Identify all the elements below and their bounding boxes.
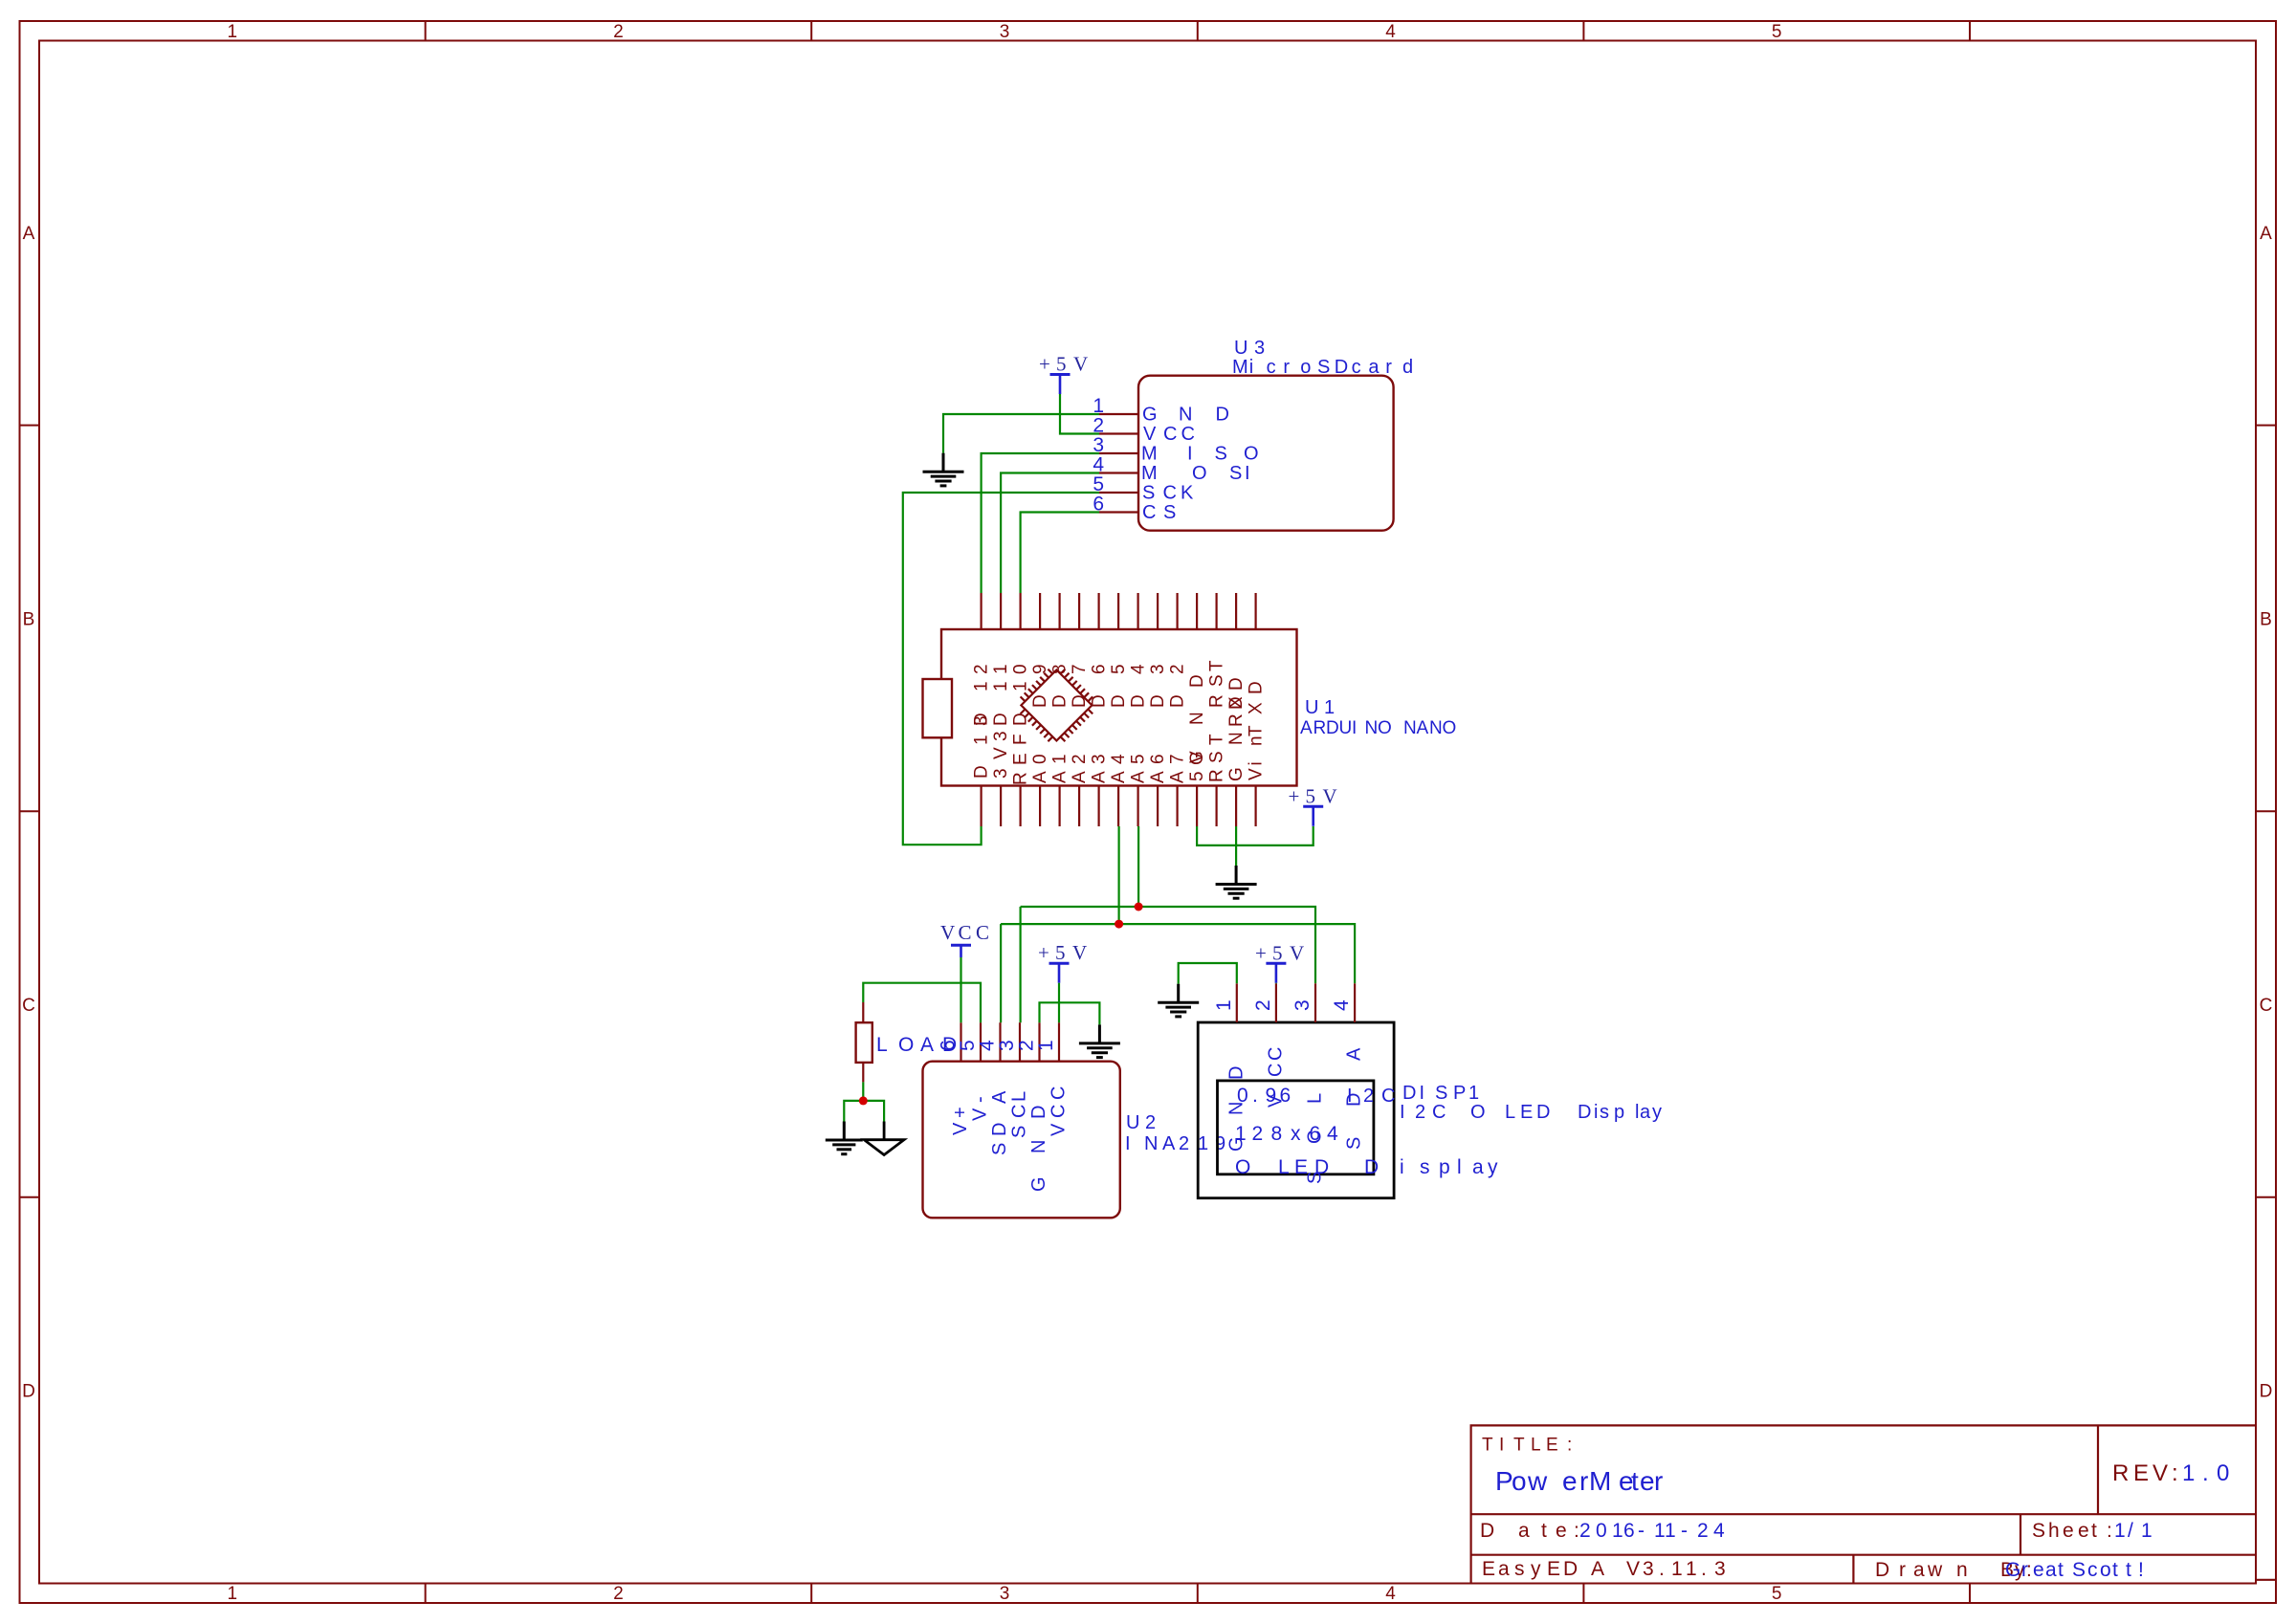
ground (923, 453, 964, 486)
svg-text:2: 2 (613, 22, 624, 42)
U2 INA219 box (923, 1062, 1120, 1218)
resistor LOAD (862, 1002, 864, 1022)
svg-text:1: 1 (1213, 999, 1235, 1011)
wire +5V to U2 VCC pin1 (1058, 983, 1060, 1023)
power VCC at U2 V+ (951, 945, 971, 957)
svg-text:2: 2 (1252, 999, 1274, 1011)
title block (1471, 1425, 2276, 1583)
power +5V (1266, 963, 1286, 983)
svg-text:1: 1 (228, 22, 238, 42)
svg-text:+5V: +5V (1255, 941, 1304, 964)
svg-text:TXD: TXD (1247, 681, 1267, 736)
ground (826, 1122, 863, 1154)
svg-text:+5V: +5V (1039, 353, 1088, 376)
SCL net line to DISP1 pin3 (1021, 907, 1315, 983)
svg-text:A: A (23, 224, 35, 244)
DISP1 pins 1-4 (1236, 983, 1238, 1022)
DISP1 OLED screen inner box (1218, 1081, 1374, 1174)
svg-text:1: 1 (228, 1584, 238, 1604)
svg-text:+5V: +5V (1289, 784, 1337, 807)
U3 pins 1-6 (1099, 413, 1138, 415)
svg-text:2: 2 (613, 1584, 624, 1604)
svg-text:B: B (2260, 609, 2272, 629)
svg-text:SCL: SCL (1009, 1091, 1030, 1138)
wire LOAD to U2 V- (863, 983, 981, 1023)
wire U3 GND to ground (943, 414, 1099, 453)
svg-text:VCC: VCC (1049, 1086, 1070, 1136)
power +5V (1303, 806, 1323, 826)
wire U1 GND pin down (1235, 826, 1237, 866)
svg-text:RST: RST (1207, 660, 1227, 708)
wire U1 A5 to SCL line (1137, 826, 1139, 907)
svg-text:REF: REF (1011, 734, 1031, 785)
svg-text:C: C (22, 996, 35, 1016)
svg-text:5: 5 (1772, 1584, 1782, 1604)
junction LOAD-grounds (859, 1096, 868, 1105)
ground (1158, 984, 1199, 1017)
svg-text:4: 4 (1385, 22, 1396, 42)
svg-text:A: A (2260, 224, 2272, 244)
SDA net line to DISP1 pin4 (1001, 924, 1355, 983)
svg-text:PowerMeter: PowerMeter (1495, 1466, 1663, 1496)
DISP1 OLED module box (1198, 1022, 1394, 1198)
power +5V (1049, 963, 1070, 982)
svg-text:DISP1: DISP1 (1402, 1083, 1479, 1104)
ground (1216, 866, 1257, 898)
U3 MicroSDcard box (1138, 376, 1394, 531)
wire U1 5V to +5V symbol (1197, 826, 1314, 845)
svg-text:3: 3 (1000, 1584, 1010, 1604)
svg-text:I2C OLED Display: I2C OLED Display (1400, 1102, 1662, 1123)
svg-text:RST: RST (1207, 734, 1227, 782)
svg-text:4: 4 (1331, 999, 1353, 1011)
svg-text:D: D (22, 1382, 35, 1402)
svg-text:VCC: VCC (940, 921, 989, 944)
svg-text:ARDUINO NANO: ARDUINO NANO (1300, 718, 1456, 738)
svg-text:+5V: +5V (1038, 941, 1087, 964)
wire U2 GND to ground (1040, 1002, 1100, 1024)
wire DISP1 GND to ground (1179, 963, 1237, 984)
svg-text:V-: V- (970, 1096, 991, 1121)
svg-text:SDA: SDA (989, 1090, 1010, 1155)
svg-text:3: 3 (1000, 22, 1010, 42)
svg-text:GND: GND (1028, 1106, 1049, 1192)
svg-text:1: 1 (1035, 1040, 1057, 1051)
power +5V (1050, 375, 1071, 395)
ground (1079, 1024, 1120, 1057)
wire U2 SDA riser (1000, 924, 1002, 1022)
U1 usb connector rectangle (923, 679, 953, 737)
svg-text:C: C (2260, 996, 2273, 1016)
U1 bottom pins (980, 786, 982, 827)
junction A5-SCL (1135, 903, 1143, 911)
svg-text:4: 4 (1385, 1584, 1396, 1604)
svg-text:GND: GND (1142, 405, 1229, 426)
junction A4-SDA (1115, 920, 1123, 929)
svg-text:3: 3 (1291, 999, 1314, 1011)
svg-text:D: D (2260, 1382, 2273, 1402)
wire U3 CS to U1 D10 (1021, 513, 1099, 594)
wire U3 MISO to U1 D12 (982, 453, 1099, 593)
svg-text:B: B (23, 609, 35, 629)
wire U1 A4 to SDA line (1117, 826, 1119, 924)
wire U2 SCL riser (1019, 907, 1021, 1022)
svg-text:5: 5 (1772, 22, 1782, 42)
U1 Arduino Nano box (941, 629, 1297, 786)
svg-text:1.0: 1.0 (2182, 1460, 2229, 1486)
wire U3 MOSI to U1 D11 (1001, 473, 1099, 594)
wire +5V to U3 VCC pin2 (1060, 394, 1099, 434)
chassis ground triangle (864, 1122, 904, 1155)
U1 MCU chip diamond (1021, 669, 1093, 742)
svg-text:VCC: VCC (1143, 424, 1195, 445)
wire +5V to DISP1 pin2 (1275, 982, 1277, 985)
wire LOAD bottom to grounds (862, 1082, 864, 1101)
wire U3 SCK to U1 D13 (903, 493, 1099, 845)
svg-text:EasyEDA V3.11.3: EasyEDA V3.11.3 (1482, 1558, 1726, 1580)
U1 top pins (980, 593, 982, 629)
wire VCC to U2 V+ (960, 957, 961, 1022)
svg-text:3V3: 3V3 (991, 731, 1011, 779)
svg-text:GND: GND (1226, 696, 1247, 781)
U2 pins (960, 1022, 961, 1062)
svg-text:SCK: SCK (1142, 483, 1194, 504)
